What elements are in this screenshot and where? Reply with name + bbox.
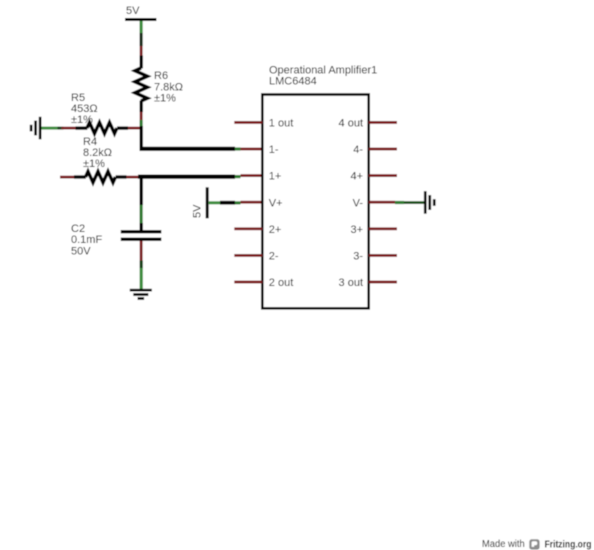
capacitor C2 bottom pin — [140, 241, 143, 261]
pin 3- stub — [369, 254, 397, 257]
svg-text:3 out: 3 out — [339, 277, 363, 289]
node: wire endpoint at pin 1+ (green) — [235, 175, 241, 178]
svg-text:0.1mF: 0.1mF — [71, 234, 102, 246]
pin 2- stub — [234, 254, 262, 257]
ground symbol (bottom) — [130, 289, 152, 300]
resistor R6 bottom pin — [140, 112, 143, 120]
svg-text:1-: 1- — [269, 144, 279, 156]
svg-text:±1%: ±1% — [154, 93, 176, 105]
resistor R4 — [60, 172, 140, 183]
pin 1 out stub — [234, 121, 262, 124]
pin 2+ stub — [234, 227, 262, 230]
pin 4+ stub — [369, 174, 397, 177]
svg-text:R6: R6 — [154, 70, 168, 82]
pin 3 out stub — [369, 281, 397, 284]
node: junction of R6/R5/wire (green) — [140, 120, 143, 127]
wire: 5V to pin V+ (green then black) — [209, 201, 220, 204]
ground symbol (left, rotated) — [30, 117, 42, 140]
resistor R6 body — [140, 56, 143, 69]
pin V+ stub — [241, 201, 263, 204]
pin 2 out stub — [234, 281, 262, 284]
resistor R6 top pin — [140, 46, 143, 56]
pin 4 out stub — [369, 121, 397, 124]
node: wire endpoint at pin V+ (green) — [235, 201, 241, 204]
pin 3+ stub — [369, 227, 397, 230]
power +5V symbol bar (top) — [125, 18, 157, 21]
svg-text:V-: V- — [353, 197, 364, 209]
svg-text:3-: 3- — [353, 251, 363, 263]
op-amp U1 LMC6484 body — [262, 95, 368, 309]
ground symbol (right, rotated) — [424, 191, 436, 214]
wire: R4 to pin 1+ — [138, 175, 235, 179]
svg-text:V+: V+ — [269, 197, 283, 209]
svg-text:2+: 2+ — [269, 224, 282, 236]
pin V- stub — [369, 201, 395, 204]
svg-text:Made with: Made with — [482, 539, 525, 550]
svg-text:2-: 2- — [269, 251, 279, 263]
svg-text:50V: 50V — [71, 246, 91, 258]
node: wire endpoint at pin V- (green) — [395, 201, 404, 204]
pin 1- stub — [241, 148, 263, 151]
svg-text:1+: 1+ — [269, 171, 282, 183]
wire: ground to R5 (green) — [42, 127, 58, 130]
wire: junction down then right to pin 1- — [140, 126, 143, 150]
svg-text:4+: 4+ — [350, 171, 363, 183]
pin 1+ stub — [241, 174, 263, 177]
node: wire endpoint at pin 1- (green) — [235, 147, 241, 150]
capacitor C2 plates — [121, 230, 162, 233]
watermark: Made with Fritzing.org — [482, 538, 591, 550]
wire: V- to ground (dark green) — [404, 201, 424, 204]
pin 4- stub — [369, 148, 397, 151]
svg-text:3+: 3+ — [350, 224, 363, 236]
svg-text:4 out: 4 out — [339, 118, 363, 130]
svg-text:1 out: 1 out — [269, 118, 293, 130]
svg-text:±1%: ±1% — [83, 158, 105, 170]
node: C2 to ground wire (green) — [140, 261, 143, 269]
wire: junction B down to C2 — [140, 177, 143, 205]
svg-text:Fritzing.org: Fritzing.org — [545, 538, 592, 550]
resistor R5 — [62, 123, 142, 134]
svg-text:5V: 5V — [126, 5, 140, 17]
svg-text:5V: 5V — [192, 204, 204, 218]
power +5V symbol (V+ supply, rotated) — [206, 187, 209, 218]
wire: 5V pin to R6 (connected, green) — [140, 21, 143, 33]
svg-text:2 out: 2 out — [269, 277, 293, 289]
svg-text:LMC6484: LMC6484 — [269, 76, 317, 88]
svg-text:4-: 4- — [353, 144, 363, 156]
